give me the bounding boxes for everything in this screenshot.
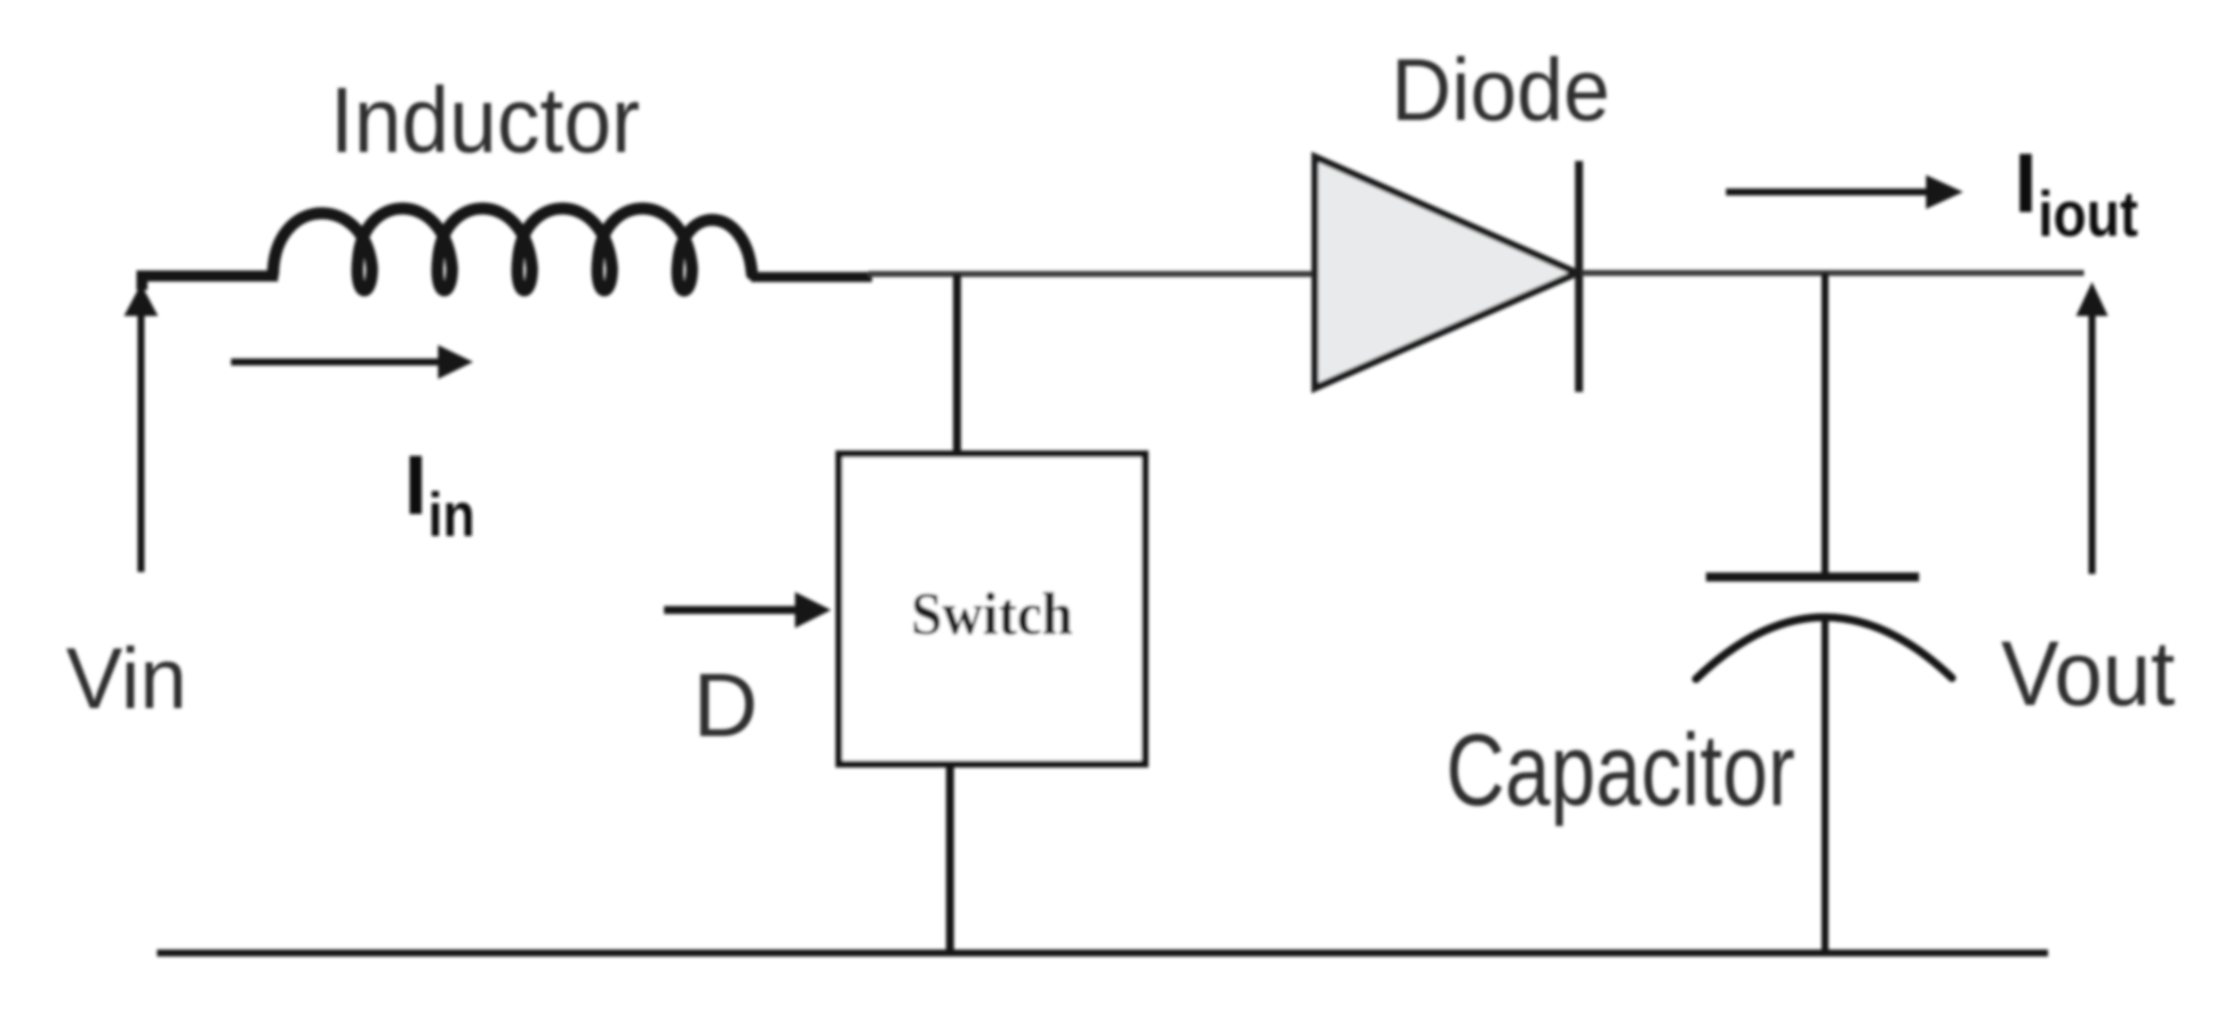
D gate arrow: [664, 606, 800, 614]
wire capacitor to ground rail: [1822, 620, 1829, 955]
Vin arrow: [138, 310, 145, 572]
svg-text:Switch: Switch: [911, 581, 1073, 647]
wire node to diode anode (thin): [868, 271, 1318, 277]
diode cathode bar: [1575, 161, 1583, 392]
svg-text:in: in: [428, 481, 475, 550]
svg-text:D: D: [693, 656, 758, 756]
diode D1 triangle: [1315, 157, 1577, 388]
capacitor C1 curved bottom plate: [1696, 617, 1952, 679]
Iiout arrow: [1726, 189, 1928, 196]
wire node down to capacitor top plate: [1822, 273, 1829, 577]
capacitor C1 top plate: [1706, 573, 1919, 582]
wire diode to output node: [1582, 270, 2084, 276]
svg-text:iout: iout: [2038, 178, 2138, 250]
wire inductor to node (thick part): [751, 272, 872, 282]
wire top-left from Vin corner to inductor: [142, 276, 278, 290]
svg-text:I: I: [404, 438, 427, 532]
svg-text:Inductor: Inductor: [330, 68, 640, 172]
wire node down to switch: [953, 274, 961, 457]
wire switch to ground rail: [946, 762, 954, 955]
inductor L1 coil: [273, 208, 752, 290]
svg-text:Vin: Vin: [66, 631, 187, 727]
svg-text:Capacitor: Capacitor: [1446, 713, 1795, 827]
svg-text:Diode: Diode: [1391, 40, 1610, 139]
Vout arrow: [2089, 312, 2096, 574]
svg-text:Vout: Vout: [2001, 623, 2175, 725]
Iin arrow: [231, 359, 443, 366]
svg-text:I: I: [2014, 136, 2037, 230]
switch U1 box: [839, 454, 1145, 764]
ground rail wire: [157, 950, 2048, 957]
